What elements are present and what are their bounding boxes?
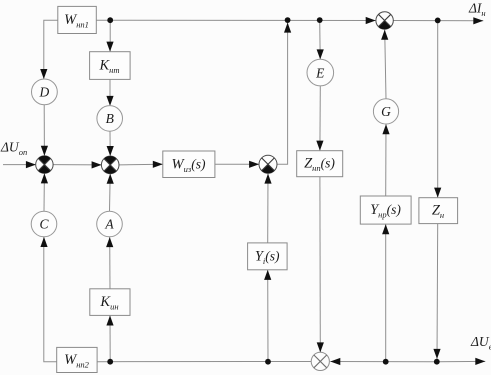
wire: S1 to S2 — [53, 161, 101, 168]
wire: C up to summing junction S1 — [41, 173, 48, 211]
wire: K_нт to B — [106, 79, 113, 106]
bottom node to K_ин — [107, 359, 113, 365]
wire: M1 output up to top line node — [277, 23, 291, 165]
block W_нп2 — [57, 347, 97, 372]
wire: A up to summing junction S2 — [107, 174, 114, 211]
block Z_н — [419, 198, 458, 224]
block W_нп1 — [58, 6, 97, 33]
wire: K_ин up to A — [106, 237, 113, 289]
gain circle D — [32, 79, 58, 105]
multiplier M1 after W_из(s) — [259, 155, 277, 173]
wire: W_нп2 left up to C — [40, 237, 56, 362]
bottom node to Y_i(s) — [265, 359, 271, 365]
wire: summer T1 output to ΔI_н with node — [393, 17, 483, 24]
block Y_i(s) — [248, 243, 288, 270]
node under W_нп1 output — [107, 17, 113, 23]
summer T1 at ΔI_н line — [376, 12, 393, 29]
node where M1 output joins top line — [285, 17, 291, 23]
summing junction S2 — [101, 156, 119, 174]
block Z_нп(s) — [297, 151, 343, 177]
wire: bottom line from node leftwards into B1 — [330, 358, 437, 365]
svg-text:Yнр(s): Yнр(s) — [370, 202, 401, 220]
svg-text:A: A — [104, 217, 114, 232]
gain circle B — [97, 106, 123, 132]
wire: top node down to E — [317, 20, 324, 59]
wire: G up to summer T1 — [381, 30, 388, 99]
bottom node to Y_нр(s) — [383, 359, 389, 365]
wire: Z_н down to bottom output node — [433, 224, 440, 359]
wire: top node down to K_нт — [106, 20, 113, 51]
wire: D to summing junction S1 — [41, 105, 48, 156]
wire: bottom node to ΔU_в output — [437, 358, 486, 365]
svg-text:E: E — [315, 65, 325, 80]
svg-text:G: G — [381, 104, 391, 119]
bottom output node ΔU_в — [434, 359, 440, 365]
block Y_нр(s) — [360, 196, 411, 224]
svg-text:ΔUв: ΔUв — [470, 334, 491, 352]
svg-text:D: D — [39, 85, 50, 100]
node branching down to E — [317, 17, 323, 23]
wire: E down to Z_нп(s) — [316, 86, 323, 151]
gain circle A — [97, 211, 123, 237]
wire: bottom node up to Y_нр(s) — [382, 224, 389, 362]
block K_нт — [90, 52, 131, 80]
multiplier B1 on bottom line — [311, 352, 329, 370]
block W_из(s) — [163, 151, 215, 178]
gain circle G — [373, 99, 398, 124]
wire: Y_i(s) up to multiplier M1 — [264, 174, 271, 243]
gain circle E — [307, 59, 334, 86]
wire: Z_нп(s) down to bottom multiplier B1 — [317, 177, 324, 353]
svg-text:B: B — [106, 111, 114, 126]
wire: bottom node up to K_ин — [106, 316, 113, 362]
svg-text:Zнп(s): Zнп(s) — [304, 156, 335, 174]
summing junction S1 (ΔU_оп node) — [36, 156, 53, 174]
wire: top-right node down to Z_н — [434, 21, 441, 198]
wire: Y_нр(s) up to G — [382, 124, 389, 196]
wire: bottom node up to Y_i(s) — [264, 270, 271, 362]
node branching down to Z_н — [435, 18, 441, 24]
svg-text:C: C — [39, 217, 49, 232]
wire: input ΔU_оп to S1 — [3, 161, 36, 168]
wire: W_нп1 left to D — [40, 20, 58, 79]
wire: B1 output left along bottom line to W_нп2 — [97, 361, 311, 363]
gain circle C — [31, 211, 57, 237]
wire: S2 to W_из(s) — [119, 161, 163, 168]
block K_ин — [90, 289, 130, 316]
svg-text:Yi(s): Yi(s) — [255, 248, 280, 266]
wire: B to summing junction S2 — [107, 131, 114, 156]
wire: W_из(s) to multiplier M1 — [215, 161, 259, 168]
wire: W_нп1 output along top line to summer right — [96, 17, 375, 24]
